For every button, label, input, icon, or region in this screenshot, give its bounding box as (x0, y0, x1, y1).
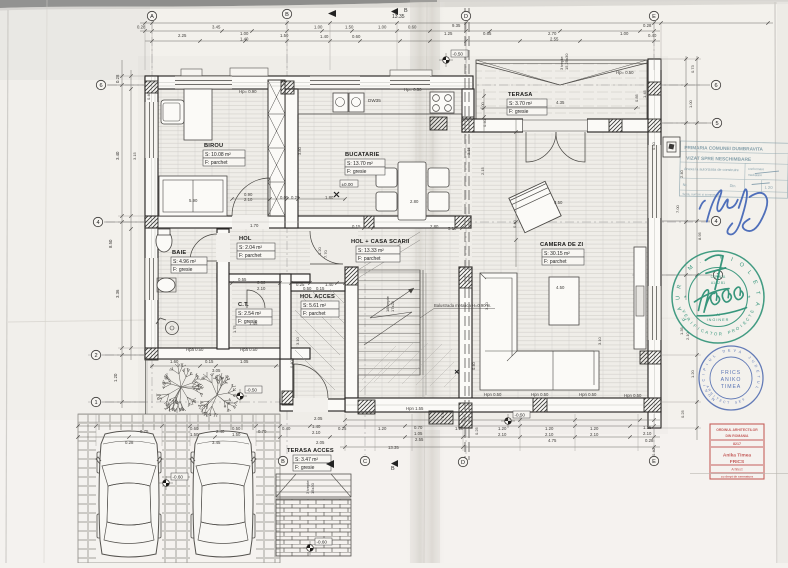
svg-text:Hpa 0.50: Hpa 0.50 (186, 347, 204, 352)
svg-text:7.00: 7.00 (675, 204, 680, 213)
svg-text:E: E (652, 14, 656, 20)
svg-text:B: B (281, 459, 285, 465)
svg-text:C: C (363, 459, 367, 465)
svg-text:TERASA ACCES: TERASA ACCES (287, 448, 334, 454)
svg-text:1.00: 1.00 (620, 31, 629, 36)
svg-text:0.15: 0.15 (316, 286, 325, 291)
svg-text:0.28: 0.28 (115, 74, 120, 83)
svg-text:BUCATARIE: BUCATARIE (345, 152, 379, 158)
svg-text:4.35: 4.35 (556, 100, 565, 105)
svg-text:5.10: 5.10 (448, 226, 457, 231)
svg-text:1.45: 1.45 (642, 89, 647, 98)
svg-text:Hpn 0.50: Hpn 0.50 (579, 392, 597, 397)
svg-text:1.25: 1.25 (444, 31, 453, 36)
svg-text:D: D (464, 14, 468, 20)
svg-text:0.50: 0.50 (232, 426, 241, 431)
svg-text:17x28: 17x28 (390, 300, 395, 312)
svg-text:Seria, numele si semnatura: Seria, numele si semnatura (682, 192, 719, 197)
svg-text:2.40: 2.40 (216, 429, 225, 434)
svg-text:TERASA: TERASA (508, 92, 533, 98)
svg-text:B: B (285, 12, 289, 18)
svg-text:-0.50: -0.50 (453, 52, 464, 57)
svg-text:1.20: 1.20 (378, 426, 387, 431)
svg-text:0.70: 0.70 (414, 425, 423, 430)
svg-text:S: 4.96 m²: S: 4.96 m² (173, 259, 196, 265)
svg-text:FRICS: FRICS (721, 370, 741, 376)
svg-text:E: E (652, 459, 656, 465)
svg-text:-0.60: -0.60 (173, 475, 184, 480)
svg-text:2.10: 2.10 (244, 197, 253, 202)
svg-text:1.50: 1.50 (345, 25, 354, 30)
svg-text:8217: 8217 (733, 442, 741, 446)
svg-text:S: 3.70 m²: S: 3.70 m² (509, 101, 532, 107)
svg-text:ANIKO: ANIKO (721, 377, 742, 383)
svg-text:S: 13.70 m²: S: 13.70 m² (347, 161, 373, 167)
svg-text:DW35: DW35 (368, 98, 381, 103)
svg-text:Hp= 0.50: Hp= 0.50 (616, 70, 634, 75)
svg-text:Nr.: Nr. (683, 183, 688, 187)
svg-text:3.36: 3.36 (115, 289, 120, 298)
svg-text:U: U (675, 296, 681, 300)
svg-text:1.50: 1.50 (232, 432, 241, 437)
svg-text:Hpn 0.50: Hpn 0.50 (624, 393, 642, 398)
svg-text:15,25x30: 15,25x30 (564, 53, 569, 70)
svg-text:2.70: 2.70 (548, 31, 557, 36)
svg-text:2.10: 2.10 (643, 431, 652, 436)
svg-text:S: 3.47 m²: S: 3.47 m² (295, 457, 318, 463)
svg-text:DIN ROMANIA: DIN ROMANIA (726, 434, 750, 438)
svg-text:0.65: 0.65 (483, 31, 492, 36)
svg-text:1.15: 1.15 (643, 425, 652, 430)
svg-text:0.40: 0.40 (146, 91, 151, 100)
svg-text:0.60: 0.60 (352, 34, 361, 39)
svg-text:cu drept de semnatura: cu drept de semnatura (721, 475, 754, 479)
svg-text:0.25: 0.25 (474, 426, 479, 435)
svg-text:1.45: 1.45 (249, 321, 258, 326)
svg-text:3.45: 3.45 (212, 25, 221, 30)
svg-text:F: gresie: F: gresie (509, 109, 529, 115)
svg-text:S: 30.15 m²: S: 30.15 m² (544, 251, 570, 257)
svg-text:3.10: 3.10 (597, 336, 602, 345)
svg-text:0.40: 0.40 (440, 409, 445, 418)
svg-text:3.40: 3.40 (115, 151, 120, 160)
svg-text:1.00: 1.00 (314, 25, 323, 30)
svg-text:4.75: 4.75 (548, 438, 557, 443)
svg-text:3.05: 3.05 (212, 368, 221, 373)
svg-text:2.05: 2.05 (314, 416, 323, 421)
svg-text:ORDINUL ARHITECTILOR: ORDINUL ARHITECTILOR (716, 428, 758, 432)
svg-text:-0.50: -0.50 (247, 388, 258, 393)
svg-text:3.10: 3.10 (295, 336, 300, 345)
svg-text:3.80: 3.80 (297, 146, 302, 155)
svg-text:INGINER: INGINER (707, 318, 730, 322)
svg-text:1.00: 1.00 (688, 99, 693, 108)
svg-text:0.28: 0.28 (643, 23, 652, 28)
svg-text:3.45: 3.45 (212, 440, 221, 445)
svg-text:3.15: 3.15 (466, 146, 471, 155)
svg-text:F: parchet: F: parchet (358, 256, 381, 262)
svg-text:A: A (150, 14, 154, 20)
svg-text:1.75: 1.75 (232, 324, 237, 333)
svg-text:B: B (391, 466, 395, 472)
svg-text:0.70: 0.70 (258, 429, 267, 434)
svg-text:2: 2 (94, 353, 97, 359)
svg-text:0.40: 0.40 (651, 447, 656, 456)
svg-text:Hpa 0.50: Hpa 0.50 (240, 347, 258, 352)
svg-text:2.10: 2.10 (312, 430, 321, 435)
svg-text:8.50: 8.50 (108, 239, 113, 248)
svg-text:0.85: 0.85 (634, 93, 639, 102)
svg-text:S: 10.08 m²: S: 10.08 m² (205, 152, 231, 158)
svg-text:1.20: 1.20 (317, 246, 322, 255)
svg-text:L 20: L 20 (765, 185, 774, 190)
svg-text:C.T.: C.T. (238, 302, 249, 308)
svg-text:6: 6 (714, 83, 717, 89)
svg-text:B: B (404, 8, 408, 14)
svg-text:0.28: 0.28 (645, 438, 654, 443)
svg-text:15x30: 15x30 (310, 482, 315, 494)
svg-text:1.20: 1.20 (690, 369, 695, 378)
svg-text:Balustrada metalica H=0.90 m.: Balustrada metalica H=0.90 m. (434, 303, 491, 308)
svg-text:F: parchet: F: parchet (303, 311, 326, 317)
svg-text:2.10: 2.10 (257, 286, 266, 291)
svg-text:F: parchet: F: parchet (205, 160, 228, 166)
svg-text:0.73: 0.73 (690, 64, 695, 73)
svg-text:S: 2.04 m²: S: 2.04 m² (239, 245, 262, 251)
svg-text:1.70: 1.70 (250, 223, 259, 228)
svg-text:2.10: 2.10 (545, 432, 554, 437)
svg-text:0.25: 0.25 (338, 426, 347, 431)
svg-text:A1 A2 B1: A1 A2 B1 (711, 281, 725, 285)
svg-text:±0.00: ±0.00 (342, 182, 354, 187)
svg-text:1.00: 1.00 (378, 25, 387, 30)
svg-text:BAIE: BAIE (172, 250, 186, 256)
svg-text:F: parchet: F: parchet (544, 259, 567, 265)
svg-text:FRICS: FRICS (730, 459, 745, 465)
svg-text:4.50: 4.50 (554, 200, 563, 205)
svg-text:Din.: Din. (730, 184, 737, 188)
svg-text:0.40: 0.40 (289, 359, 294, 368)
svg-text:D: D (461, 460, 465, 466)
svg-text:1.60: 1.60 (170, 359, 179, 364)
svg-text:4: 4 (714, 219, 717, 225)
svg-text:S: 5.61 m²: S: 5.61 m² (303, 303, 326, 309)
svg-text:1.40: 1.40 (320, 34, 329, 39)
svg-text:1.40: 1.40 (312, 424, 321, 429)
svg-text:0.40: 0.40 (282, 426, 291, 431)
svg-text:1.20: 1.20 (590, 426, 599, 431)
svg-text:2.25: 2.25 (178, 33, 187, 38)
svg-text:13.35: 13.35 (388, 445, 399, 450)
svg-text:7.70: 7.70 (323, 249, 328, 258)
svg-text:0.15: 0.15 (205, 359, 214, 364)
svg-text:1.40: 1.40 (240, 37, 249, 42)
svg-text:BIROU: BIROU (204, 143, 223, 149)
svg-text:1.05: 1.05 (414, 431, 423, 436)
svg-text:0.80: 0.80 (257, 280, 266, 285)
svg-text:CAMERA DE ZI: CAMERA DE ZI (540, 242, 583, 248)
svg-text:0.40: 0.40 (471, 361, 476, 370)
svg-text:2.10: 2.10 (498, 432, 507, 437)
svg-text:F: gresie: F: gresie (347, 169, 367, 175)
svg-text:0.55: 0.55 (238, 277, 247, 282)
svg-text:0.40: 0.40 (648, 33, 657, 38)
svg-text:-0.60: -0.60 (317, 540, 328, 545)
svg-text:0.75: 0.75 (140, 429, 149, 434)
svg-text:1.20: 1.20 (545, 426, 554, 431)
svg-text:R: R (719, 331, 722, 336)
svg-text:F: gresie: F: gresie (173, 267, 193, 273)
svg-text:conformare: conformare (748, 167, 764, 171)
svg-text:Hpn 1.55: Hpn 1.55 (406, 406, 424, 411)
svg-text:HOL + CASA SCARII: HOL + CASA SCARII (351, 239, 410, 245)
svg-text:5: 5 (715, 121, 718, 127)
svg-text:1.05: 1.05 (240, 359, 249, 364)
svg-text:0.40: 0.40 (651, 141, 656, 150)
svg-text:2.15: 2.15 (480, 166, 485, 175)
svg-text:8.95: 8.95 (697, 231, 702, 240)
svg-text:T: T (727, 401, 729, 405)
svg-text:1.20: 1.20 (113, 373, 118, 382)
svg-text:6: 6 (99, 83, 102, 89)
svg-text:13.35: 13.35 (392, 14, 405, 20)
svg-text:4.50: 4.50 (556, 285, 565, 290)
svg-text:HOL ACCES: HOL ACCES (300, 294, 335, 300)
svg-text:1.50: 1.50 (190, 432, 199, 437)
svg-text:2.05: 2.05 (316, 440, 325, 445)
svg-text:S: 13.33 m²: S: 13.33 m² (358, 248, 384, 254)
svg-text:1.50: 1.50 (280, 33, 289, 38)
svg-text:2.80: 2.80 (410, 199, 419, 204)
svg-text:4: 4 (96, 220, 99, 226)
svg-text:5.90: 5.90 (189, 198, 198, 203)
svg-text:Hpn 0.50: Hpn 0.50 (531, 392, 549, 397)
svg-text:HOL: HOL (239, 236, 252, 242)
svg-text:S: 2.54 m²: S: 2.54 m² (238, 311, 261, 317)
svg-text:1.00: 1.00 (240, 31, 249, 36)
svg-text:2.10: 2.10 (590, 432, 599, 437)
svg-text:Hp= 0.90: Hp= 0.90 (239, 89, 257, 94)
svg-text:2.55: 2.55 (415, 437, 424, 442)
svg-text:0.28: 0.28 (125, 440, 134, 445)
svg-text:0.60: 0.60 (408, 25, 417, 30)
svg-text:Anika Timea: Anika Timea (723, 453, 752, 459)
svg-text:0.40: 0.40 (482, 118, 487, 127)
svg-text:0.25: 0.25 (680, 409, 685, 418)
svg-text:TIMEA: TIMEA (721, 384, 741, 390)
svg-text:1.20: 1.20 (455, 426, 464, 431)
svg-text:Hp= 0.50: Hp= 0.50 (404, 87, 422, 92)
svg-text:1.20: 1.20 (498, 426, 507, 431)
svg-text:F: gresie: F: gresie (295, 465, 315, 471)
svg-text:Hpn 0.50: Hpn 0.50 (484, 392, 502, 397)
svg-text:3.15: 3.15 (132, 151, 137, 160)
svg-text:0.60: 0.60 (190, 426, 199, 431)
svg-text:F: parchet: F: parchet (239, 253, 262, 259)
svg-text:1: 1 (94, 400, 97, 406)
svg-text:Arhitect: Arhitect (731, 468, 742, 472)
svg-text:0.50: 0.50 (303, 286, 312, 291)
svg-text:9.35: 9.35 (452, 23, 461, 28)
svg-text:0.28: 0.28 (137, 25, 146, 30)
svg-text:2.55: 2.55 (550, 37, 559, 42)
